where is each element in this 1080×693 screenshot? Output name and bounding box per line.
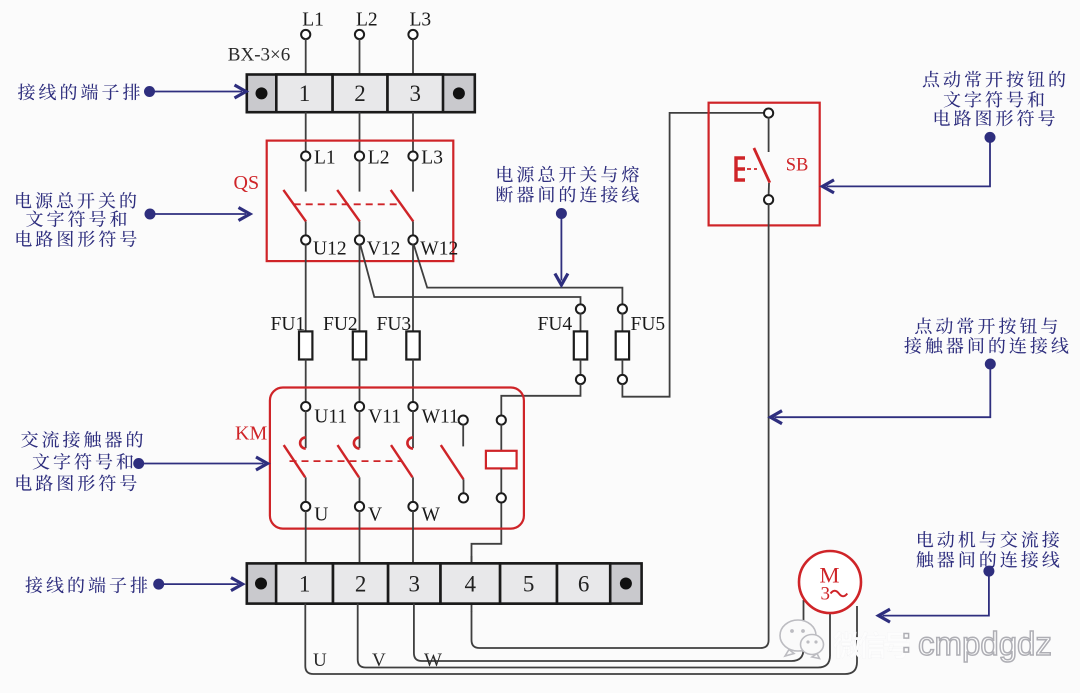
wire fuse to contactor KM [305, 360, 307, 403]
annotation: top-left terminal strip [18, 84, 140, 101]
svg-text:V: V [368, 505, 382, 526]
pushbutton SB box [709, 103, 820, 226]
fuse FU3 [377, 314, 420, 360]
annotation: SB symbol [923, 71, 1066, 88]
svg-text:1: 1 [299, 81, 311, 106]
wire QS to fuse [305, 244, 307, 331]
svg-text:FU4: FU4 [538, 314, 573, 335]
svg-text:FU5: FU5 [631, 314, 666, 335]
wire fuse to contactor KM [359, 360, 361, 403]
wire V terminal2 to motor [358, 604, 830, 668]
svg-text:V12: V12 [367, 239, 401, 260]
svg-text:FU1: FU1 [271, 314, 306, 335]
decorative watermark (not labelled as circuit) [780, 620, 824, 659]
svg-text:V: V [372, 650, 386, 671]
svg-text:L1: L1 [314, 148, 336, 169]
contactor KM auxiliary contact [441, 416, 468, 503]
svg-text:3: 3 [410, 81, 422, 106]
svg-text:2: 2 [354, 81, 366, 106]
svg-text:BX-3×6: BX-3×6 [228, 45, 290, 66]
svg-text:KM: KM [235, 423, 267, 445]
fuse FU4 [538, 304, 588, 384]
svg-text:U: U [314, 505, 328, 526]
svg-text:L1: L1 [302, 10, 324, 31]
annotation: KM symbol [21, 431, 143, 448]
switch QS box [267, 141, 454, 262]
fuse FU1 [271, 314, 313, 360]
svg-text:4: 4 [465, 572, 477, 597]
terminal block XT2 (1-6) [247, 563, 642, 603]
switch QS pole 1 [283, 148, 346, 260]
wire QS to fuse [359, 244, 361, 331]
svg-text:U12: U12 [313, 239, 347, 260]
node L1 supply terminal [301, 10, 324, 40]
svg-text:1: 1 [299, 572, 311, 597]
node L3 supply terminal [408, 10, 431, 40]
wire W12 branch to FU5 [414, 246, 622, 305]
svg-text:U11: U11 [314, 407, 347, 428]
wire W terminal3 to motor [414, 600, 804, 661]
svg-text:cmpdgdz: cmpdgdz [918, 625, 1052, 662]
svg-text:W12: W12 [420, 239, 458, 260]
wire V12 branch to FU4 [361, 246, 581, 305]
svg-text:L2: L2 [368, 148, 390, 169]
wire FU5 to button SB [622, 113, 764, 397]
wire QS to fuse [412, 244, 414, 331]
svg-text:3: 3 [409, 572, 421, 597]
wire terminal block to QS [412, 112, 414, 152]
svg-text:FU2: FU2 [323, 314, 358, 335]
wire U terminal1 to motor [305, 604, 857, 674]
svg-text:U: U [313, 650, 327, 671]
svg-text:3: 3 [821, 584, 831, 605]
wire terminal block to QS [359, 112, 361, 152]
wire KM to bottom terminal block [359, 511, 361, 564]
svg-text:6: 6 [578, 572, 590, 597]
wire FU4 to KM coil [501, 384, 580, 416]
wire SB to terminal 4 and KM coil [472, 204, 769, 648]
contactor KM box [270, 388, 524, 529]
wire KM to bottom terminal block [412, 511, 414, 564]
switch QS pole 3 [391, 148, 459, 260]
svg-text:FU3: FU3 [377, 314, 412, 335]
contactor KM main contact 1 [284, 402, 347, 526]
svg-text:W11: W11 [422, 407, 459, 428]
svg-text:L3: L3 [421, 148, 443, 169]
svg-text:QS: QS [234, 172, 260, 194]
contactor KM linkage dashed line [290, 460, 402, 462]
fuse FU5 [616, 304, 665, 384]
annotation: motor-KM connection [918, 531, 1059, 548]
svg-text:W: W [422, 505, 441, 526]
svg-text:L3: L3 [410, 10, 432, 31]
svg-text:5: 5 [523, 572, 535, 597]
wire L1 to terminal block [305, 39, 307, 75]
contactor KM main contact 3 [391, 402, 459, 526]
svg-text:W: W [424, 650, 442, 671]
wire L3 to terminal block [412, 39, 414, 75]
svg-text:L2: L2 [356, 10, 378, 31]
annotation: QS-fuse connection [498, 166, 639, 183]
wire KM to bottom terminal block [305, 511, 307, 564]
svg-text:V11: V11 [368, 407, 401, 428]
contactor KM coil [486, 416, 517, 503]
contactor KM main contact 2 [338, 402, 401, 526]
wire fuse to contactor KM [412, 360, 414, 403]
switch QS linkage dashed line [294, 203, 401, 205]
fuse FU2 [323, 314, 366, 360]
motor M 3~ [799, 551, 861, 613]
wire terminal block to QS [305, 112, 307, 152]
pushbutton SB contact [736, 109, 773, 205]
wire L2 to terminal block [359, 39, 361, 75]
switch QS pole 2 [337, 148, 400, 260]
svg-text:SB: SB [786, 156, 809, 176]
annotation: QS symbol [16, 192, 136, 209]
annotation: SB-KM connection [915, 317, 1057, 334]
node L2 supply terminal [355, 10, 378, 40]
svg-text:2: 2 [355, 572, 367, 597]
annotation: bottom-left terminal strip [25, 577, 147, 594]
terminal block XT1 (1,2,3) [247, 75, 475, 113]
